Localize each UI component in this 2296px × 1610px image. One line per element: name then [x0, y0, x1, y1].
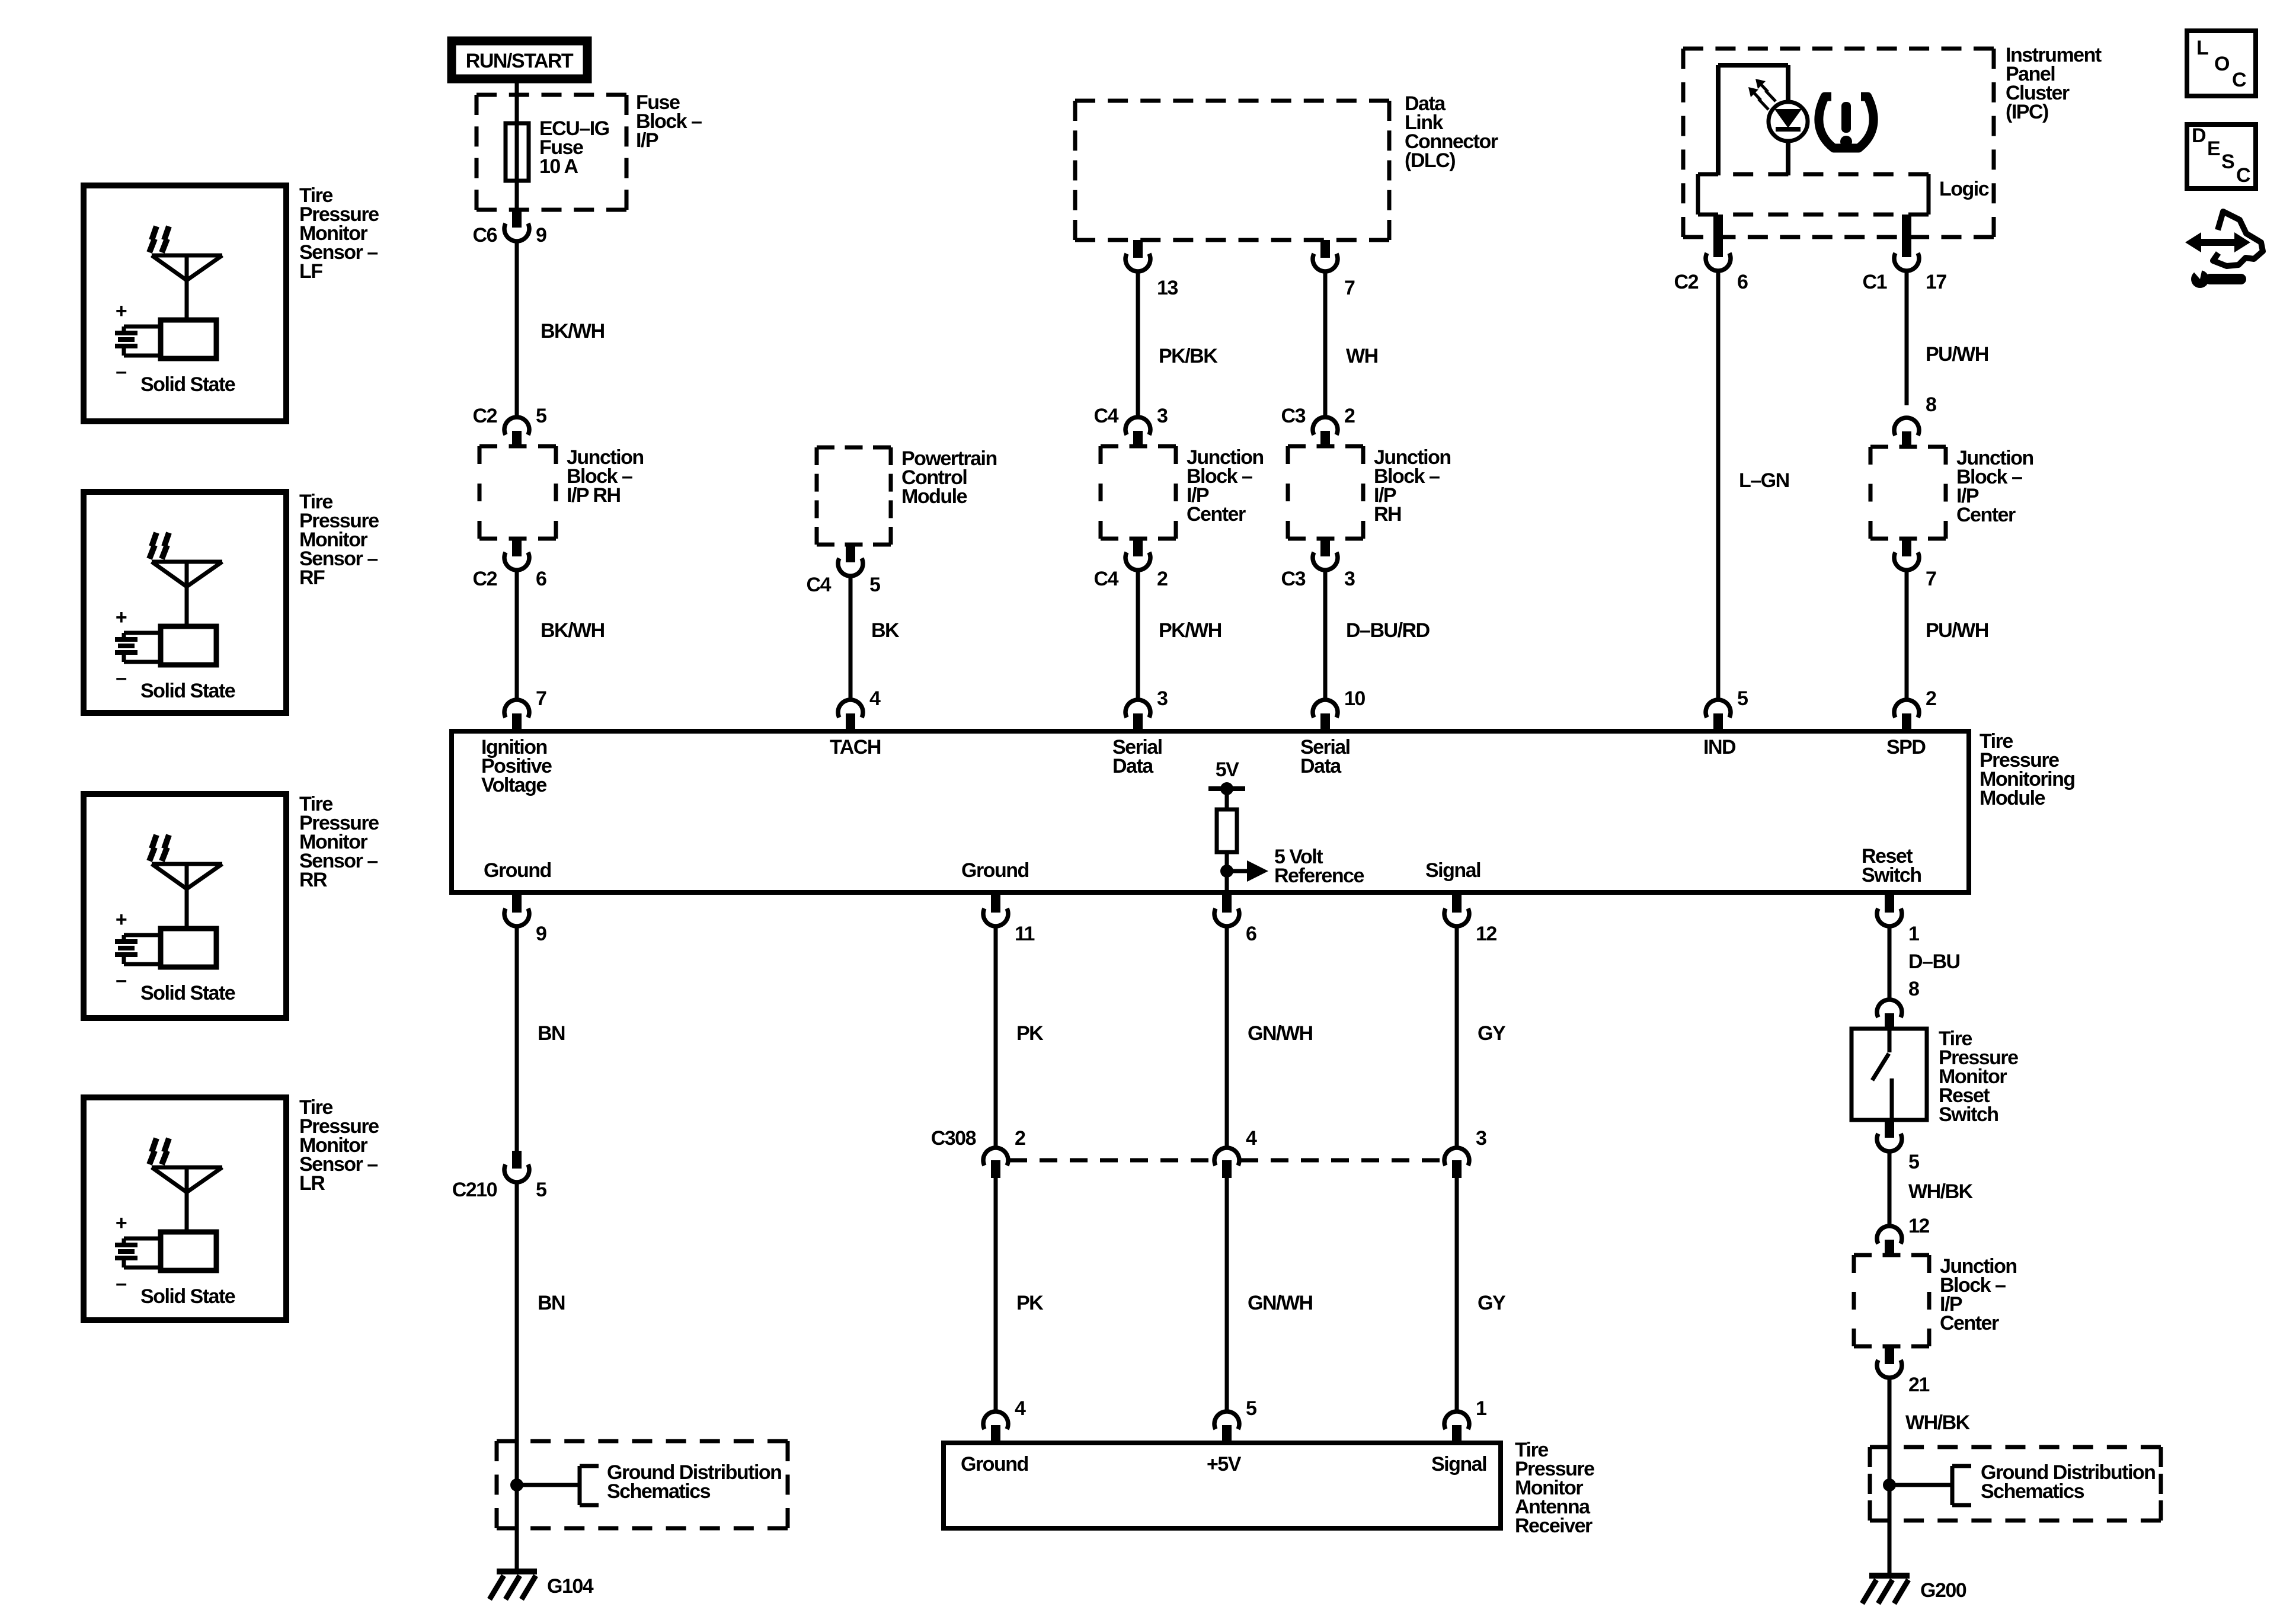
module pin 11 connector [991, 895, 1000, 913]
svg-text:C: C [2236, 164, 2250, 187]
svg-text:3: 3 [1157, 405, 1168, 427]
connector C2 pin 6 (IPC IND) [1713, 215, 1723, 257]
svg-text:6: 6 [1737, 271, 1748, 293]
svg-text:13: 13 [1157, 277, 1178, 299]
ground G104 symbol [497, 1569, 537, 1574]
wire PK C308 to antenna receiver [994, 1178, 998, 1411]
svg-text:O: O [2214, 53, 2230, 75]
svg-text:RH: RH [1374, 503, 1401, 526]
svg-text:WH/BK: WH/BK [1905, 1411, 1971, 1434]
svg-text:C: C [2232, 69, 2246, 91]
svg-text:12: 12 [1908, 1215, 1929, 1237]
svg-text:(IPC): (IPC) [2006, 101, 2048, 123]
svg-text:–: – [116, 667, 126, 689]
svg-text:2: 2 [1015, 1127, 1025, 1150]
svg-text:Center: Center [1956, 504, 2016, 526]
sensor LF antenna [152, 254, 222, 258]
svg-text:I/P RH: I/P RH [567, 484, 621, 507]
svg-text:+: + [116, 908, 127, 931]
svg-text:5: 5 [1737, 687, 1748, 710]
svg-text:10: 10 [1344, 687, 1365, 710]
svg-text:C4: C4 [1094, 405, 1119, 427]
sensor RF RF transmit waves [152, 533, 156, 546]
wire BN C210 to ground G104 [515, 1182, 519, 1571]
svg-text:RR: RR [299, 869, 327, 891]
svg-text:PU/WH: PU/WH [1926, 619, 1988, 642]
svg-text:–: – [116, 969, 126, 991]
connector C4 pin 5 [846, 545, 855, 562]
ground distribution dashed box right [1870, 1445, 2161, 1449]
sensor LF battery [124, 325, 161, 329]
tire pressure monitor reset switch box [1851, 1029, 1927, 1120]
connector C3 pin 2 [1313, 417, 1338, 435]
svg-text:WH: WH [1346, 345, 1378, 367]
svg-text:C3: C3 [1281, 568, 1306, 590]
wire resistor to 5V reference node [1225, 852, 1229, 895]
connector C308 pin 3 [1444, 1148, 1469, 1166]
connector C308 pin 2 [983, 1148, 1008, 1166]
connector C2 pin 5 [504, 417, 529, 435]
wire GY module to C308 [1455, 926, 1459, 1148]
receiver pin 4 connector [983, 1411, 1008, 1429]
LED emission arrows [1759, 82, 1768, 92]
svg-text:GN/WH: GN/WH [1248, 1292, 1313, 1314]
ground distribution tap wire left [517, 1483, 580, 1487]
connector C6 pin 9 [512, 210, 522, 228]
tire pressure monitor sensor RF box [84, 492, 286, 713]
svg-text:G104: G104 [547, 1575, 594, 1598]
connector C210 pin 5 [512, 1151, 522, 1169]
svg-text:Ground: Ground [961, 1453, 1028, 1475]
LED indicator lamp [1769, 102, 1808, 141]
sensor RF battery [124, 631, 161, 635]
svg-text:9: 9 [536, 923, 546, 945]
svg-text:3: 3 [1344, 568, 1355, 590]
svg-text:–: – [116, 360, 126, 383]
sensor RR antenna [152, 862, 222, 866]
svg-text:I/P: I/P [636, 129, 658, 152]
svg-text:BK/WH: BK/WH [541, 320, 605, 343]
tire pressure monitor sensor LF box [84, 185, 286, 421]
connector pin 7 (junction block exit) [1902, 539, 1911, 556]
svg-text:5V: 5V [1216, 758, 1239, 781]
svg-text:2: 2 [1157, 568, 1168, 590]
svg-text:–: – [116, 1272, 126, 1295]
reset switch contacts [1888, 1029, 1892, 1052]
LOC legend box [2187, 31, 2256, 96]
svg-text:5: 5 [536, 405, 546, 427]
module pin 10 connector [1313, 700, 1338, 718]
svg-text:11: 11 [1015, 923, 1035, 945]
fuse ECU-IG 10A [506, 123, 529, 181]
svg-text:Signal: Signal [1425, 859, 1480, 882]
svg-text:GY: GY [1478, 1292, 1506, 1314]
svg-text:Voltage: Voltage [481, 774, 546, 796]
svg-text:Data: Data [1112, 755, 1154, 777]
svg-text:BK: BK [871, 619, 900, 642]
svg-text:5: 5 [1246, 1397, 1256, 1420]
connector C308 dashed line [1009, 1158, 1213, 1163]
wire BN module to C210 [515, 926, 519, 1151]
connector C3 pin 3 [1320, 539, 1330, 556]
svg-text:+5V: +5V [1207, 1453, 1242, 1475]
tire pressure monitor antenna receiver box [944, 1443, 1501, 1528]
IPC indicator circuit wire loop [1716, 65, 1721, 175]
tire pressure monitor sensor LR box [84, 1097, 286, 1320]
svg-text:5: 5 [869, 574, 880, 596]
svg-text:C308: C308 [931, 1127, 976, 1150]
wire PU/WH IPC to connector 8 [1905, 271, 1909, 405]
ground distribution junction dot left [510, 1478, 523, 1491]
sensor RR battery [124, 933, 161, 937]
svg-text:Center: Center [1187, 503, 1246, 526]
svg-text:L–GN: L–GN [1739, 469, 1789, 492]
connector C4 pin 3 [1125, 417, 1150, 435]
connector pin 5 (reset switch) [1885, 1120, 1894, 1138]
svg-text:C6: C6 [473, 224, 497, 247]
svg-text:BN: BN [538, 1022, 565, 1045]
instrument panel cluster IPC dashed box [1683, 47, 1994, 51]
5 volt reference arrow [1227, 869, 1247, 873]
svg-text:TACH: TACH [830, 736, 881, 758]
svg-text:LR: LR [299, 1172, 325, 1195]
svg-text:1: 1 [1908, 923, 1919, 945]
module pin 5 connector [1706, 700, 1731, 718]
module pin 7 connector [504, 700, 529, 718]
wire GN/WH C308 to antenna receiver [1225, 1178, 1229, 1411]
svg-text:Logic: Logic [1939, 178, 1989, 200]
svg-text:1: 1 [1476, 1397, 1486, 1420]
svg-text:Module: Module [1980, 787, 2045, 809]
ground distribution dashed box left [497, 1439, 788, 1443]
wire PK module to C308 [994, 926, 998, 1148]
svg-text:Module: Module [901, 485, 967, 508]
wire through fuse [515, 124, 519, 181]
svg-text:7: 7 [536, 687, 546, 710]
svg-text:IND: IND [1703, 736, 1736, 758]
connector C308 pin 4 [1214, 1148, 1239, 1166]
svg-text:WH/BK: WH/BK [1908, 1180, 1974, 1203]
module pin 3 connector [1125, 700, 1150, 718]
svg-text:BN: BN [538, 1292, 565, 1314]
sensor RF antenna [152, 560, 222, 564]
wire BK/WH junction block to module [515, 570, 519, 700]
IPC logic dashed box [1698, 172, 1929, 177]
svg-text:6: 6 [536, 568, 546, 590]
connector C2 pin 6 [512, 539, 522, 556]
svg-text:E: E [2207, 137, 2220, 160]
svg-text:(DLC): (DLC) [1405, 149, 1455, 172]
DLC pin 7 connector [1320, 240, 1330, 258]
svg-text:LF: LF [299, 260, 322, 283]
sensor LF solid-state module box [161, 320, 216, 359]
wire WH DLC to junction block [1323, 271, 1328, 417]
svg-text:Switch: Switch [1939, 1103, 1998, 1126]
junction block I/P Center dashed box (serial data) [1101, 444, 1176, 449]
wire fuse to connector C6 [515, 181, 519, 210]
svg-text:Signal: Signal [1431, 1453, 1486, 1475]
junction block I/P RH dashed box (serial data) [1288, 444, 1363, 449]
module pin 12 connector [1452, 895, 1462, 913]
svg-text:D: D [2192, 124, 2206, 147]
receiver pin 5 connector [1214, 1411, 1239, 1429]
svg-text:C3: C3 [1281, 405, 1306, 427]
svg-text:C2: C2 [473, 405, 497, 427]
svg-text:2: 2 [1344, 405, 1355, 427]
DLC pin 13 connector [1133, 240, 1143, 258]
svg-text:C4: C4 [1094, 568, 1119, 590]
node RUN/START (ignition voltage) [452, 41, 587, 79]
wire BK/WH fuse block to junction block [515, 241, 519, 417]
svg-text:D–BU/RD: D–BU/RD [1346, 619, 1430, 642]
wire D-BU module to connector 8 [1888, 926, 1892, 1000]
svg-text:PK: PK [1016, 1292, 1044, 1314]
svg-text:D–BU: D–BU [1908, 950, 1960, 973]
wire PU/WH junction block to module [1905, 570, 1909, 700]
svg-text:Reference: Reference [1274, 865, 1364, 887]
fuse block I/P dashed box [477, 93, 626, 97]
ground distribution junction dot right [1883, 1478, 1896, 1491]
svg-text:Solid State: Solid State [140, 373, 235, 396]
svg-text:GN/WH: GN/WH [1248, 1022, 1313, 1045]
svg-text:Ground: Ground [484, 859, 551, 882]
svg-text:4: 4 [1015, 1397, 1026, 1420]
svg-text:Receiver: Receiver [1515, 1515, 1593, 1537]
svg-text:9: 9 [536, 224, 546, 247]
svg-text:Data: Data [1300, 755, 1342, 777]
svg-text:Schematics: Schematics [1981, 1480, 2084, 1503]
tire pressure monitoring module box [452, 731, 1969, 892]
wire WH/BK reset switch to connector 12 [1888, 1151, 1892, 1226]
svg-text:RUN/START: RUN/START [466, 50, 574, 72]
connector C4 pin 2 [1133, 539, 1143, 556]
svg-text:3: 3 [1476, 1127, 1486, 1150]
svg-text:C2: C2 [473, 568, 497, 590]
svg-text:4: 4 [869, 687, 881, 710]
svg-text:7: 7 [1344, 277, 1355, 299]
svg-text:2: 2 [1926, 687, 1936, 710]
receiver pin 1 connector [1444, 1411, 1469, 1429]
sensor RF solid-state module box [161, 626, 216, 665]
wire PK/BK DLC to junction block [1136, 271, 1140, 417]
wire GN/WH module to C308 [1225, 926, 1229, 1148]
sensor LF RF transmit waves [152, 226, 156, 240]
svg-text:21: 21 [1908, 1374, 1929, 1396]
tire pressure monitor sensor RR box [84, 794, 286, 1018]
ground G200 symbol [1869, 1573, 1910, 1579]
module pin 2 connector [1894, 700, 1919, 718]
module pin 4 connector [838, 700, 863, 718]
svg-text:3: 3 [1157, 687, 1168, 710]
svg-text:GY: GY [1478, 1022, 1506, 1045]
module pin 9 connector [512, 895, 522, 913]
junction block I/P Center dashed box (reset) [1854, 1253, 1929, 1257]
connector pin 21 (junction block exit) [1885, 1346, 1894, 1364]
svg-text:Solid State: Solid State [140, 680, 235, 702]
sensor LR battery [124, 1237, 161, 1241]
powertrain control module dashed box [817, 446, 891, 450]
svg-text:Solid State: Solid State [140, 982, 235, 1004]
wire GY C308 to antenna receiver [1455, 1178, 1459, 1411]
svg-text:7: 7 [1926, 568, 1936, 590]
node 5 volt reference junction [1220, 865, 1233, 878]
ground distribution tap wire right [1889, 1483, 1952, 1487]
wire D-BU/RD junction block to module [1323, 570, 1328, 700]
svg-text:C210: C210 [452, 1179, 497, 1201]
svg-text:Switch: Switch [1862, 864, 1921, 886]
module pin 1 connector [1885, 895, 1894, 913]
sensor RR solid-state module box [161, 929, 216, 967]
svg-text:Center: Center [1940, 1312, 1999, 1334]
svg-text:S: S [2221, 151, 2234, 173]
svg-text:Solid State: Solid State [140, 1285, 235, 1308]
svg-text:+: + [116, 1212, 127, 1234]
sensor LR RF transmit waves [152, 1138, 156, 1152]
junction block I/P RH dashed box [479, 444, 556, 449]
svg-text:BK/WH: BK/WH [541, 619, 605, 642]
sensor LR antenna [152, 1166, 222, 1170]
module pin 6 connector [1222, 895, 1232, 913]
junction block I/P Center dashed box (SPD) [1870, 445, 1946, 449]
svg-text:8: 8 [1908, 978, 1919, 1000]
svg-text:5: 5 [1908, 1151, 1919, 1173]
svg-text:Ground: Ground [961, 859, 1029, 882]
svg-text:5: 5 [536, 1179, 546, 1201]
svg-text:C2: C2 [1674, 271, 1699, 293]
svg-text:6: 6 [1246, 923, 1256, 945]
svg-text:C4: C4 [807, 574, 832, 596]
svg-text:10 A: 10 A [539, 155, 578, 178]
svg-text:PK: PK [1016, 1022, 1044, 1045]
svg-text:12: 12 [1476, 923, 1496, 945]
sensor RR RF transmit waves [152, 835, 156, 849]
connector C1 pin 17 (IPC SPD) [1902, 215, 1911, 257]
svg-text:G200: G200 [1920, 1579, 1966, 1602]
svg-text:RF: RF [299, 566, 325, 589]
DESC legend box [2187, 124, 2256, 188]
svg-text:Schematics: Schematics [607, 1480, 711, 1503]
svg-text:L: L [2196, 37, 2208, 59]
wire BK PCM to module [849, 576, 853, 700]
data link connector DLC dashed box [1075, 99, 1389, 103]
wire WH/BK junction block to ground G200 [1888, 1378, 1892, 1576]
svg-text:C1: C1 [1863, 271, 1887, 293]
svg-text:8: 8 [1926, 393, 1936, 416]
sensor LR solid-state module box [161, 1232, 216, 1270]
low tire pressure warning icon [1819, 97, 1873, 148]
wire PK/WH junction block to module [1136, 570, 1140, 700]
svg-text:SPD: SPD [1886, 736, 1926, 758]
module internal pull-up resistor [1217, 809, 1237, 852]
wire RUN/START to fuse [515, 83, 519, 124]
svg-text:+: + [116, 300, 127, 322]
svg-text:4: 4 [1246, 1127, 1257, 1150]
svg-text:PK/BK: PK/BK [1159, 345, 1218, 367]
svg-text:17: 17 [1926, 271, 1946, 293]
diagnostic navigation icon (arrows, vehicle, wrench) [2185, 232, 2250, 252]
wire L-GN IPC to module IND [1716, 271, 1721, 700]
svg-text:+: + [116, 606, 127, 629]
svg-text:PK/WH: PK/WH [1159, 619, 1221, 642]
svg-text:PU/WH: PU/WH [1926, 343, 1988, 366]
